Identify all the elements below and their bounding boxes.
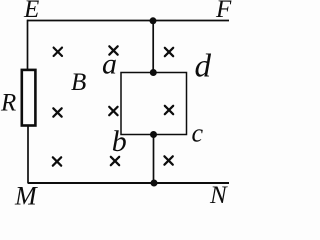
- svg-text:F: F: [215, 0, 232, 23]
- svg-text:d: d: [195, 49, 212, 85]
- wire middle lower: [153, 135, 155, 184]
- svg-text:a: a: [102, 48, 117, 81]
- wire left upper: [27, 20, 29, 70]
- field cross r1c1: [54, 48, 62, 56]
- field cross r2c1: [53, 108, 61, 116]
- field cross r1c3: [165, 48, 173, 56]
- svg-text:b: b: [112, 125, 127, 158]
- svg-text:R: R: [0, 90, 16, 117]
- wire left lower: [27, 124, 29, 184]
- wire middle upper: [152, 21, 154, 73]
- svg-text:B: B: [71, 69, 86, 96]
- wire top rail EF: [27, 20, 229, 22]
- resistor R1 box: [22, 70, 36, 126]
- svg-text:M: M: [14, 182, 38, 207]
- field cross r3c3: [164, 156, 172, 164]
- svg-text:E: E: [23, 0, 39, 23]
- junction dot square bottom: [150, 131, 157, 138]
- junction dot bottom rail: [151, 180, 158, 187]
- svg-text:c: c: [192, 119, 204, 148]
- field cross r1c2: [109, 46, 117, 54]
- wire bottom rail MN: [28, 182, 229, 184]
- field cross r2c2: [109, 107, 117, 115]
- inner square loop abcd: [121, 73, 187, 135]
- svg-text:N: N: [209, 182, 228, 206]
- field cross r3c2: [111, 157, 119, 165]
- field cross r3c1: [53, 157, 61, 165]
- junction dot top rail: [150, 17, 157, 24]
- junction dot square top: [150, 69, 157, 76]
- field cross r2c3: [165, 106, 173, 114]
